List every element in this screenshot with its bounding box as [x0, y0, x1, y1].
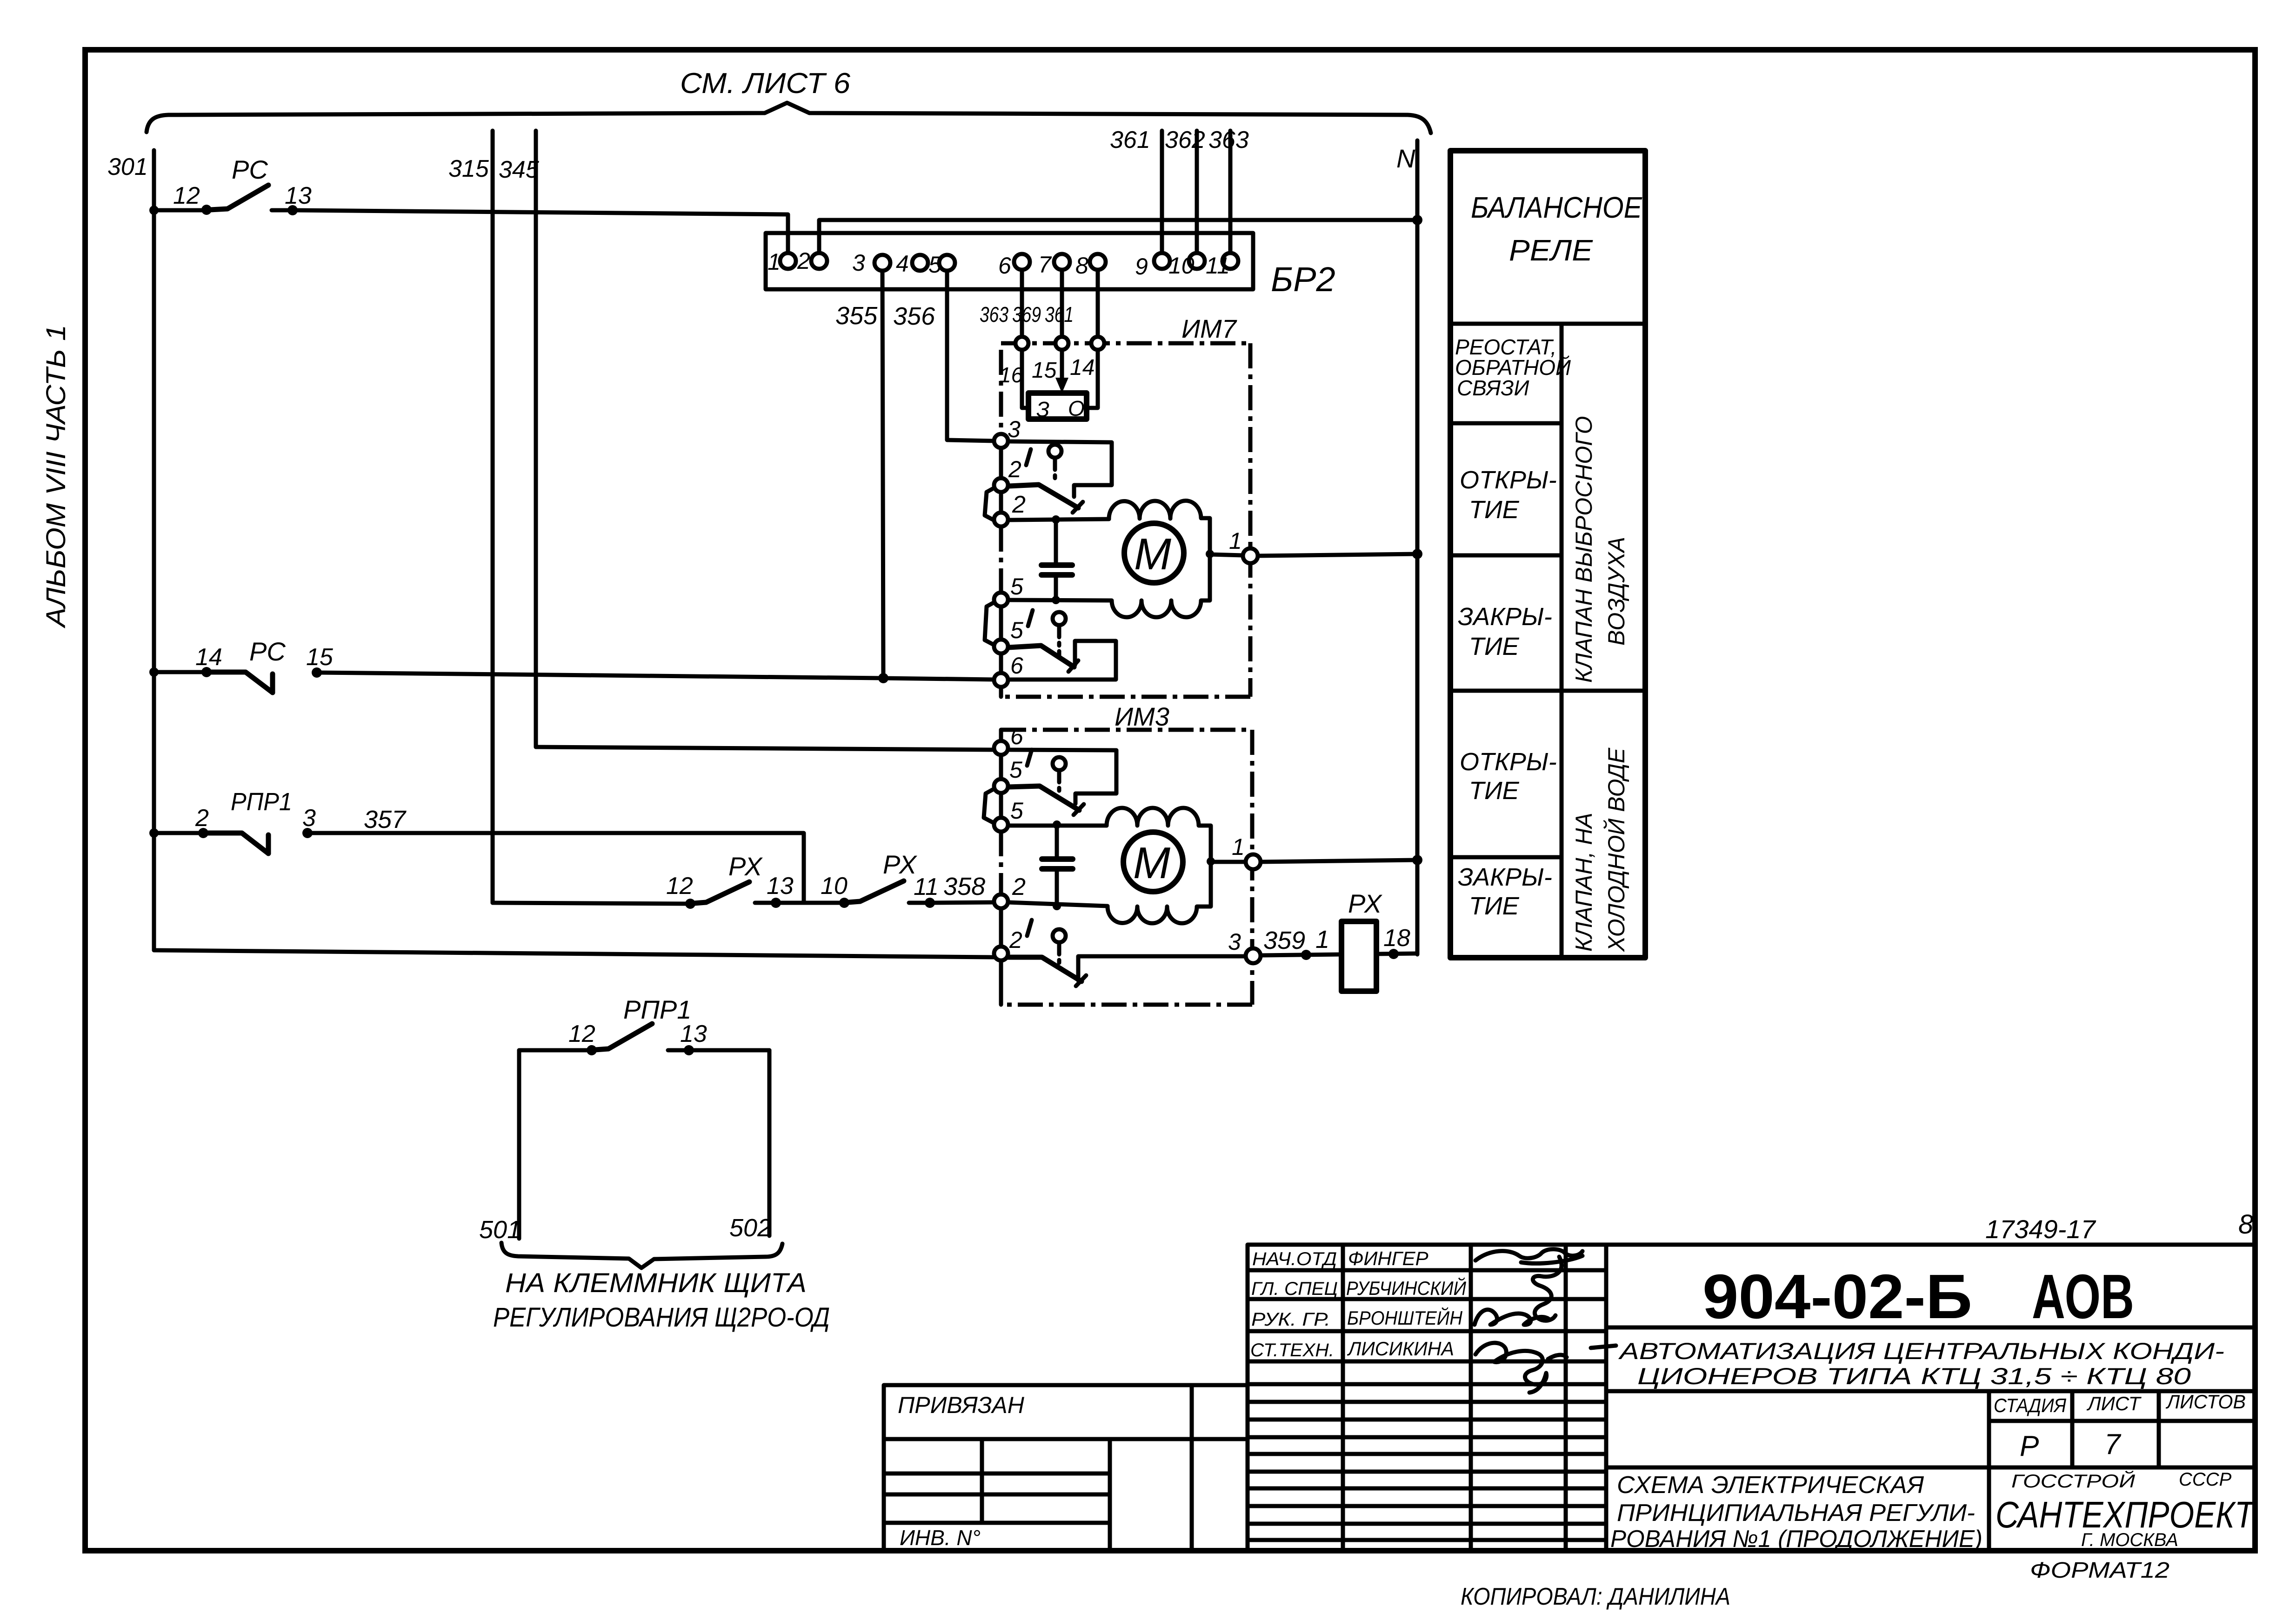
svg-text:301: 301	[107, 153, 148, 180]
svg-text:5: 5	[1009, 757, 1022, 783]
svg-text:18: 18	[1383, 925, 1410, 952]
svg-text:СССР: СССР	[2179, 1469, 2232, 1490]
motor ИМ3	[1123, 832, 1183, 892]
svg-text:РУБЧИНСКИЙ: РУБЧИНСКИЙ	[1346, 1277, 1467, 1299]
project title text	[1606, 1389, 2255, 1393]
ИМ3 fixed contact bracket lower to pin 3	[1078, 956, 1246, 980]
ИМ7 fixed contact bracket upper	[1009, 441, 1112, 497]
ИМ7 feedback rheostat wire 16	[1022, 350, 1028, 408]
svg-text:КОПИРОВАЛ: ДАНИЛИНА: КОПИРОВАЛ: ДАНИЛИНА	[1461, 1583, 1730, 1610]
ИМ3 lower switch blade	[1008, 957, 1081, 981]
motor ИМ3 lower winding	[1008, 861, 1211, 923]
svg-text:РС: РС	[249, 637, 286, 666]
svg-text:356: 356	[893, 302, 935, 330]
brace to sheet 6	[147, 103, 1431, 133]
capacitor ИМ7	[1054, 520, 1058, 564]
ИМ3 lower pivot contact circle	[1053, 929, 1066, 942]
ИМ7 feedback rheostat wire 14	[1087, 350, 1098, 408]
svg-text:2: 2	[195, 805, 209, 832]
ИМ7 upper switch blade	[1009, 485, 1078, 508]
contact РС 12-13 (NO)	[201, 205, 212, 215]
ИМ7 terminal circles	[994, 434, 1008, 448]
svg-text:СХЕМА ЭЛЕКТРИЧЕСКАЯ: СХЕМА ЭЛЕКТРИЧЕСКАЯ	[1617, 1472, 1924, 1499]
ИМ7 terminal column solid links	[999, 447, 1003, 478]
svg-text:О: О	[1068, 396, 1085, 420]
table header line	[1450, 322, 1645, 326]
svg-text:ОТКРЫ-: ОТКРЫ-	[1460, 466, 1557, 494]
capacitor ИМ3	[1055, 826, 1059, 858]
svg-text:КЛАПАН ВЫБРОСНОГО: КЛАПАН ВЫБРОСНОГО	[1571, 416, 1597, 683]
svg-text:М: М	[1134, 529, 1171, 579]
svg-text:ЗАКРЫ-: ЗАКРЫ-	[1458, 603, 1552, 631]
svg-text:8: 8	[2238, 1209, 2253, 1240]
contact РХ 12-13 (NO)	[685, 899, 695, 909]
svg-text:14: 14	[195, 644, 222, 671]
svg-text:12: 12	[666, 873, 693, 900]
wire РС13 to БР2 pin1	[293, 210, 788, 254]
svg-text:САНТЕХПРОЕКТ: САНТЕХПРОЕКТ	[1996, 1494, 2256, 1535]
actuator ИМ3 boundary (dash-dot)	[1001, 728, 1252, 732]
contact РХ 10-11 (NO)	[839, 898, 849, 908]
svg-text:НА КЛЕММНИК ЩИТА: НА КЛЕММНИК ЩИТА	[505, 1268, 807, 1298]
svg-text:13: 13	[285, 182, 312, 209]
svg-text:З: З	[1036, 397, 1049, 421]
signature Рубчинский	[1533, 1257, 1562, 1320]
svg-text:ИМ3: ИМ3	[1115, 702, 1169, 731]
БР2 pin down-wires 3,5,6,7,8	[882, 269, 883, 678]
svg-text:3: 3	[852, 250, 865, 276]
wire 501 leg	[517, 1050, 521, 1239]
svg-text:6: 6	[1010, 723, 1023, 749]
Привязан table	[884, 1385, 1248, 1551]
ИМ3 terminal column solid links	[999, 730, 1003, 741]
contact РС 14-15 (delayed)	[201, 667, 212, 677]
ИМ3 pin 1	[1246, 854, 1261, 869]
title block main box	[1606, 1245, 2255, 1551]
svg-text:РЕГУЛИРОВАНИЯ Щ2РО-ОД: РЕГУЛИРОВАНИЯ Щ2РО-ОД	[493, 1302, 830, 1333]
svg-text:БРОНШТЕЙН: БРОНШТЕЙН	[1347, 1307, 1463, 1329]
svg-text:БР2: БР2	[1271, 260, 1335, 299]
wire 345	[534, 131, 538, 747]
svg-text:РОВАНИЯ №1 (ПРОДОЛЖЕНИЕ): РОВАНИЯ №1 (ПРОДОЛЖЕНИЕ)	[1610, 1526, 1982, 1553]
ИМ3 upper switch blade	[1008, 786, 1079, 810]
svg-text:369: 369	[1012, 302, 1041, 327]
svg-text:17349-17: 17349-17	[1985, 1214, 2096, 1244]
svg-text:11: 11	[914, 873, 939, 900]
svg-text:5: 5	[1010, 798, 1023, 824]
svg-text:ПРИНЦИПИАЛЬНАЯ РЕГУЛИ-: ПРИНЦИПИАЛЬНАЯ РЕГУЛИ-	[1617, 1500, 1975, 1527]
junction rail/N	[1412, 215, 1422, 225]
svg-text:ЛИСТ: ЛИСТ	[2086, 1393, 2142, 1414]
motor ИМ7 lower winding	[1009, 553, 1210, 617]
signature table row lines	[1248, 1268, 1606, 1273]
svg-text:1: 1	[768, 249, 781, 275]
contact РПР1 12-13 (NO)	[519, 1048, 588, 1053]
svg-text:363: 363	[980, 302, 1008, 327]
table row line (full)	[1450, 689, 1645, 693]
svg-text:11: 11	[1206, 253, 1230, 279]
wire РС15 to ИМ7 pin6	[317, 673, 994, 680]
svg-text:1: 1	[1229, 528, 1242, 554]
wire 359 from ИМ3 pin3 to РХ coil	[1261, 954, 1340, 955]
svg-text:15: 15	[1032, 358, 1057, 383]
junction wire356/РС15	[878, 673, 888, 683]
wire ИМ7 pin1 to N bus	[1258, 554, 1417, 556]
ИМ3 link 5'-5	[984, 789, 994, 822]
svg-text:СТАДИЯ: СТАДИЯ	[1994, 1394, 2066, 1416]
ИМ7 lower pivot contact circle	[1053, 612, 1066, 625]
svg-text:СМ. ЛИСТ 6: СМ. ЛИСТ 6	[680, 67, 851, 100]
svg-text:359: 359	[1263, 927, 1305, 954]
wire 315 corner into РХ row	[493, 903, 687, 904]
svg-text:ТИЕ: ТИЕ	[1469, 892, 1520, 920]
table row line	[1450, 855, 1562, 860]
svg-text:БАЛАНСНОЕ: БАЛАНСНОЕ	[1471, 191, 1642, 224]
svg-text:ИНВ. N°: ИНВ. N°	[900, 1526, 981, 1550]
wire РС row to switch	[154, 208, 203, 213]
svg-text:ФОРМАТ12: ФОРМАТ12	[2030, 1558, 2169, 1583]
svg-text:363: 363	[1208, 127, 1249, 153]
svg-text:12: 12	[568, 1020, 595, 1047]
ИМ7 fixed contact bracket lower	[1009, 641, 1116, 680]
svg-text:2: 2	[1009, 927, 1022, 953]
ИМ7 wire pin2 to motor winding	[1009, 519, 1109, 520]
signature Лисикина	[1475, 1343, 1567, 1393]
svg-text:РПР1: РПР1	[623, 995, 691, 1024]
actuator ИМ7 boundary (dash-dot)	[1001, 341, 1250, 346]
table row line	[1450, 421, 1562, 426]
wires 361,362,363 from sheet 6 to pins 9,10,11	[1160, 131, 1164, 254]
ИМ3 pin 3	[1246, 948, 1261, 963]
svg-text:КЛАПАН, НА: КЛАПАН, НА	[1571, 813, 1597, 952]
wire 357 down to РХ row	[307, 833, 804, 903]
svg-text:13: 13	[680, 1020, 707, 1047]
table row line	[1450, 553, 1562, 558]
signature dash	[1591, 1346, 1616, 1348]
svg-text:ЛИСИКИНА: ЛИСИКИНА	[1347, 1338, 1454, 1360]
svg-text:358: 358	[943, 873, 985, 900]
wire 358 to ИМ3 pin2	[930, 902, 994, 903]
svg-text:РХ: РХ	[728, 852, 763, 881]
svg-text:904-02-Б: 904-02-Б	[1702, 1261, 1972, 1332]
svg-text:АВТОМАТИЗАЦИЯ ЦЕНТРАЛЬНЫХ КО: АВТОМАТИЗАЦИЯ ЦЕНТРАЛЬНЫХ КОНДИ-	[1618, 1338, 2224, 1364]
svg-text:ФИНГЕР: ФИНГЕР	[1348, 1247, 1428, 1269]
svg-text:315: 315	[448, 155, 489, 182]
bottom rail to ИМ3 pin 2'	[154, 950, 994, 957]
terminal block БР2 box	[766, 233, 1253, 289]
svg-text:РХ: РХ	[883, 850, 918, 879]
svg-text:ОТКРЫ-: ОТКРЫ-	[1460, 748, 1557, 776]
motor ИМ7 upper winding	[1109, 501, 1210, 553]
signature Фингер	[1475, 1249, 1582, 1264]
svg-text:РС: РС	[232, 155, 268, 184]
bus N	[1415, 140, 1420, 954]
svg-text:ТИЕ: ТИЕ	[1469, 633, 1520, 660]
svg-text:361: 361	[1045, 302, 1074, 327]
svg-text:14: 14	[1070, 355, 1095, 380]
svg-text:АЛЬБОМ VIII ЧАСТЬ 1: АЛЬБОМ VIII ЧАСТЬ 1	[41, 325, 71, 628]
svg-text:355: 355	[835, 302, 878, 330]
svg-text:345: 345	[499, 156, 540, 183]
ИМ3 upper pivot contact circle	[1053, 757, 1066, 770]
svg-text:2: 2	[1012, 491, 1026, 518]
ИМ3 terminal circles	[994, 741, 1008, 755]
relay coil РХ	[1342, 921, 1376, 991]
wire 502 leg	[768, 1050, 772, 1236]
svg-text:НАЧ.ОТД: НАЧ.ОТД	[1252, 1249, 1337, 1269]
project number cell 904-02-Б АОВ	[1606, 1326, 2255, 1330]
svg-text:3: 3	[1228, 929, 1241, 955]
svg-text:5: 5	[1010, 617, 1023, 643]
svg-text:ИМ7: ИМ7	[1181, 314, 1237, 343]
svg-text:361: 361	[1110, 127, 1150, 153]
svg-text:2: 2	[1012, 873, 1026, 900]
ИМ7 upper pivot contact circle	[1048, 445, 1061, 458]
wire 315	[491, 131, 495, 903]
svg-text:8: 8	[1075, 253, 1088, 279]
svg-text:7: 7	[2104, 1428, 2122, 1460]
svg-text:1: 1	[1315, 926, 1329, 953]
ИМ7 link 2'-2	[985, 487, 995, 520]
БР2 terminal circles 1-11	[780, 253, 796, 269]
svg-text:10: 10	[821, 873, 848, 900]
signature Бронштейн	[1475, 1310, 1549, 1325]
svg-text:ХОЛОДНОЙ ВОДЕ: ХОЛОДНОЙ ВОДЕ	[1603, 747, 1629, 952]
svg-text:12: 12	[173, 182, 200, 209]
top rail БР2 pin2 to N	[819, 220, 1417, 254]
wire ИМ3 pin1 to N bus	[1261, 860, 1417, 862]
svg-text:ГЛ. СПЕЦ: ГЛ. СПЕЦ	[1251, 1279, 1338, 1299]
ИМ3 wire pin5 to motor winding	[1008, 824, 1107, 828]
svg-text:15: 15	[306, 644, 334, 671]
svg-text:СВЯЗИ: СВЯЗИ	[1457, 376, 1529, 400]
wire motor to ИМ3 pin 1	[1211, 860, 1246, 864]
brace to terminal strip	[501, 1243, 782, 1268]
svg-text:357: 357	[364, 806, 407, 833]
svg-text:Г. МОСКВА: Г. МОСКВА	[2081, 1530, 2178, 1550]
svg-text:4: 4	[896, 251, 909, 277]
ИМ7 pin 1	[1243, 548, 1258, 563]
svg-text:362: 362	[1165, 127, 1205, 153]
ИМ3 fixed contact bracket upper	[1008, 750, 1116, 804]
wire РХ coil to N bus	[1376, 953, 1417, 954]
svg-text:5: 5	[928, 252, 941, 278]
svg-text:2: 2	[797, 248, 810, 274]
wire motor to pin 1	[1210, 554, 1243, 555]
svg-text:13: 13	[767, 873, 794, 900]
svg-text:Р: Р	[2020, 1430, 2039, 1462]
svg-text:16: 16	[999, 363, 1023, 387]
ИМ7 feedback rheostat wiper wire 15 with arrow	[1060, 350, 1064, 382]
svg-text:ЗАКРЫ-: ЗАКРЫ-	[1458, 863, 1552, 891]
svg-text:М: М	[1133, 838, 1170, 888]
title block signature table outline	[1248, 1245, 1606, 1551]
ИМ7 terminals 16,15,14	[1015, 337, 1028, 350]
function table Балансное реле	[1450, 151, 1645, 958]
svg-text:3: 3	[302, 805, 316, 832]
svg-text:ЦИОНЕРОВ ТИПА КТЦ 31,5 ÷ КТЦ: ЦИОНЕРОВ ТИПА КТЦ 31,5 ÷ КТЦ 80	[1637, 1363, 2191, 1389]
wire РХ13 to РХ10	[776, 901, 841, 905]
svg-text:N: N	[1396, 144, 1415, 173]
svg-text:6: 6	[998, 253, 1011, 279]
ИМ7 lower switch blade	[1009, 646, 1074, 667]
middle band line	[1606, 1466, 2255, 1470]
svg-text:5: 5	[1010, 573, 1023, 600]
svg-text:ВОЗДУХА: ВОЗДУХА	[1603, 537, 1629, 646]
svg-text:7: 7	[1038, 252, 1052, 278]
feedback rheostat З-О box	[1028, 393, 1087, 419]
Стадия Лист Листов columns	[1987, 1391, 1991, 1551]
svg-text:502: 502	[729, 1214, 771, 1242]
table column divider	[1560, 324, 1564, 958]
svg-text:2: 2	[1008, 456, 1021, 482]
svg-text:РЕЛЕ: РЕЛЕ	[1509, 233, 1593, 267]
svg-text:РПР1: РПР1	[231, 788, 292, 816]
junction bus/РС	[149, 206, 159, 215]
junction cap top	[1052, 515, 1060, 524]
svg-text:РУК. ГР.: РУК. ГР.	[1251, 1309, 1330, 1330]
motor ИМ7	[1124, 523, 1184, 583]
wire 345 corner into ИМ3 pin 6	[536, 747, 994, 750]
svg-text:6: 6	[1010, 653, 1023, 679]
svg-text:СТ.ТЕХН.: СТ.ТЕХН.	[1250, 1340, 1334, 1360]
svg-text:ГОССТРОЙ: ГОССТРОЙ	[2011, 1470, 2135, 1492]
svg-text:501: 501	[479, 1216, 521, 1244]
motor ИМ3 upper winding	[1107, 808, 1211, 861]
svg-text:1: 1	[1232, 834, 1245, 860]
svg-text:ПРИВЯЗАН: ПРИВЯЗАН	[898, 1392, 1025, 1418]
svg-text:ТИЕ: ТИЕ	[1469, 496, 1520, 524]
svg-text:9: 9	[1135, 253, 1148, 280]
contact РПР1 2-3 (delayed)	[198, 828, 208, 838]
svg-text:АОВ: АОВ	[2032, 1261, 2134, 1332]
svg-text:РХ: РХ	[1348, 889, 1383, 918]
signature table column lines	[1341, 1245, 1345, 1551]
svg-text:10: 10	[1168, 253, 1195, 279]
svg-text:ЛИСТОВ: ЛИСТОВ	[2165, 1391, 2246, 1413]
svg-text:ТИЕ: ТИЕ	[1469, 777, 1520, 805]
ИМ7 link 5-5'	[985, 602, 995, 645]
left bus wire 301	[152, 150, 156, 950]
